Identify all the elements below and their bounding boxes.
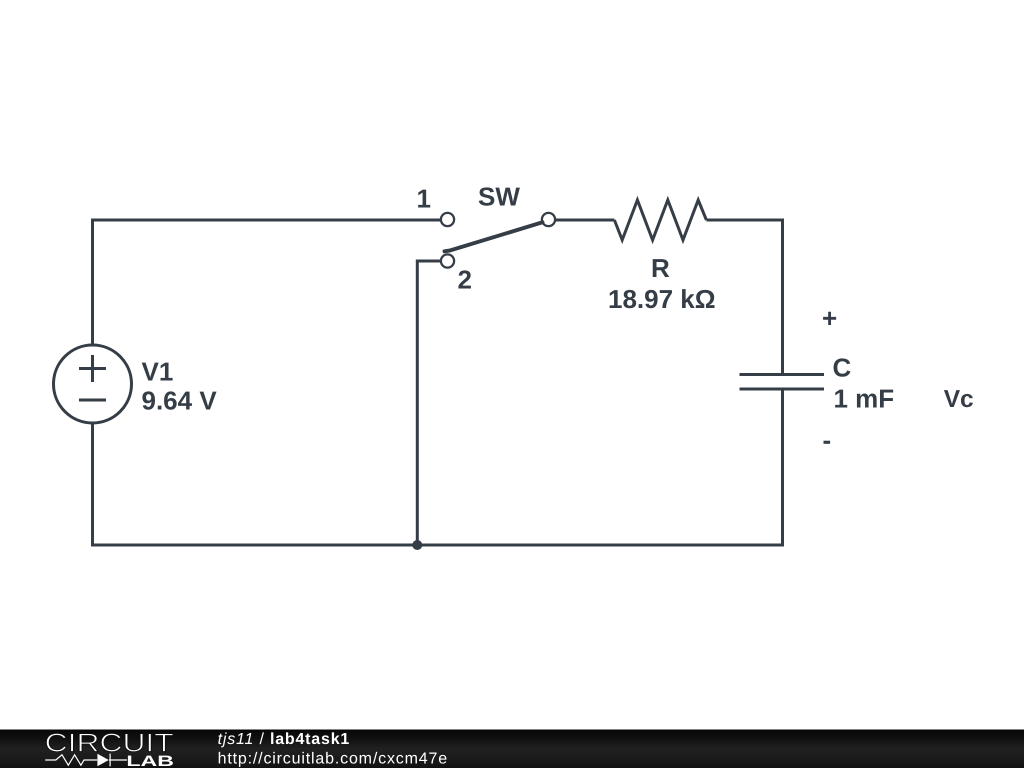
V1 minus sign: [79, 399, 106, 402]
svg-text:LAB: LAB: [126, 753, 174, 768]
svg-text:1: 1: [417, 184, 431, 214]
wire resistor to right corner down to capacitor: [706, 219, 782, 375]
wire terminal2 to mid vertical + mid vertical wire: [417, 260, 440, 546]
capacitor C top plate: [740, 373, 825, 376]
svg-text:1 mF: 1 mF: [834, 384, 895, 414]
wire V1 bottom lead + bottom wire: [91, 423, 784, 546]
wire V1 top lead + top wire: [91, 220, 440, 346]
switch terminal 2 circle: [441, 254, 454, 267]
resistor R zigzag: [614, 200, 706, 240]
svg-text:V1: V1: [142, 357, 174, 387]
capacitor C bottom plate: [740, 388, 825, 391]
svg-text:2: 2: [458, 265, 472, 295]
wire switch common to resistor: [556, 219, 614, 222]
wire capacitor bottom lead: [781, 389, 784, 545]
CircuitLab logo diode triangle: [97, 754, 108, 766]
voltage source V1 circle: [54, 345, 132, 423]
svg-text:+: +: [822, 303, 837, 333]
svg-text:-: -: [823, 425, 832, 455]
svg-text:http://circuitlab.com/cxcm47e: http://circuitlab.com/cxcm47e: [218, 750, 448, 767]
svg-text:SW: SW: [478, 182, 520, 212]
junction node dot: [412, 540, 422, 550]
switch common circle: [542, 213, 555, 226]
svg-text:tjs11 / lab4task1: tjs11 / lab4task1: [218, 731, 351, 748]
footer bar background: [0, 730, 1024, 768]
CircuitLab logo resistor-diode squiggle: [45, 754, 127, 767]
svg-text:C: C: [833, 353, 852, 383]
svg-text:R: R: [651, 253, 670, 283]
switch SW throw arm: [445, 222, 543, 251]
svg-text:18.97 kΩ: 18.97 kΩ: [608, 284, 716, 314]
svg-text:Vc: Vc: [944, 386, 974, 413]
V1 plus sign: [79, 355, 106, 382]
switch terminal 1 circle: [441, 213, 454, 226]
svg-text:9.64 V: 9.64 V: [142, 386, 218, 416]
